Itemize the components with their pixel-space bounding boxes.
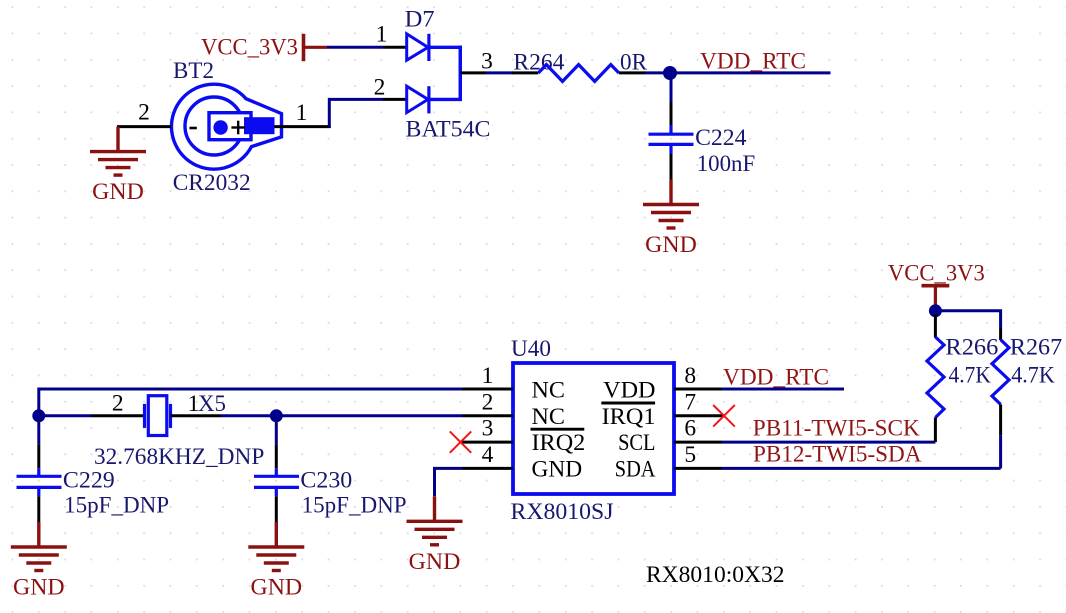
crystal IX5 32.768KHZ <box>94 391 264 470</box>
ground GND at U40 pin 4 <box>407 496 463 575</box>
ground GND at BT2 <box>90 127 146 206</box>
svg-text:3: 3 <box>481 49 493 75</box>
wire R264 to VDD_RTC net <box>645 71 831 74</box>
svg-text:R266: R266 <box>945 335 998 361</box>
op-amp U40 RX8010SJ box <box>511 336 675 525</box>
svg-text:BT2: BT2 <box>173 58 214 84</box>
svg-text:D7: D7 <box>405 6 435 32</box>
pin 3 of U40 (no connect X) <box>450 416 513 453</box>
pin 4 of U40 + wire to GND <box>435 442 514 496</box>
power port VCC_3V3 (right) <box>888 261 985 311</box>
ground GND at C230 <box>248 522 304 601</box>
pin 2 of crystal <box>91 391 144 417</box>
capacitor C230 <box>254 416 407 523</box>
pin 8 of U40 / net VDD_RTC <box>674 363 844 390</box>
svg-text:1: 1 <box>482 363 494 389</box>
svg-text:5: 5 <box>684 442 696 468</box>
svg-text:15pF_DNP: 15pF_DNP <box>302 493 407 519</box>
power port VCC_3V3 (left) <box>201 34 327 61</box>
svg-text:100nF: 100nF <box>697 151 756 177</box>
svg-text:4.7K: 4.7K <box>1011 362 1055 388</box>
svg-text:SDA: SDA <box>615 456 656 482</box>
pin 6 of U40 / net PB11-TWI5-SCK <box>674 415 935 442</box>
diode D7 (BAT54C dual schottky) <box>405 6 491 142</box>
svg-text:C230: C230 <box>300 468 352 494</box>
pin 7 of U40 (no connect X) <box>674 389 735 426</box>
svg-text:X5: X5 <box>198 391 226 417</box>
svg-text:RX8010SJ: RX8010SJ <box>511 499 614 525</box>
svg-text:4.7K: 4.7K <box>949 362 991 388</box>
pin 5 of U40 / net PB12-TWI5-SDA <box>674 442 1001 469</box>
svg-text:GND: GND <box>13 575 65 601</box>
svg-text:IRQ1: IRQ1 <box>602 404 656 430</box>
battery BT2 <box>171 58 281 196</box>
svg-text:RX8010:0X32: RX8010:0X32 <box>646 562 785 588</box>
capacitor C229 <box>17 416 170 523</box>
svg-text:R267: R267 <box>1010 335 1063 361</box>
svg-text:1: 1 <box>296 100 308 126</box>
svg-text:IRQ2: IRQ2 <box>532 430 586 456</box>
ground GND at C224 <box>643 180 699 259</box>
capacitor C224 <box>649 73 756 180</box>
svg-text:CR2032: CR2032 <box>173 170 251 196</box>
svg-text:VDD_RTC: VDD_RTC <box>700 48 806 74</box>
ground GND at C229 <box>11 522 67 601</box>
node junction at C229 <box>32 409 45 422</box>
svg-text:GND: GND <box>409 549 461 575</box>
pin 3 of D7 <box>460 49 493 75</box>
pin 1 of crystal / wire to U40 pin 2 <box>171 414 463 417</box>
wire BT2 to D7 pin 2 <box>329 99 383 126</box>
svg-text:GND: GND <box>251 575 303 601</box>
wire net XT1 (top row to U40 pin 1) <box>39 389 462 416</box>
svg-text:VCC_3V3: VCC_3V3 <box>201 34 298 60</box>
svg-text:2: 2 <box>482 389 494 415</box>
svg-text:SCL: SCL <box>618 430 655 456</box>
pin 2 of D7 <box>374 75 408 101</box>
svg-text:NC: NC <box>532 404 566 430</box>
svg-text:2: 2 <box>374 75 386 101</box>
pin 2 of BT2 + wire to GND <box>117 100 171 127</box>
wire D7 pin3 to R264 <box>486 71 513 74</box>
svg-text:NC: NC <box>532 378 566 404</box>
wire junction to crystal pin 2 <box>39 414 91 417</box>
pin 1 of D7 <box>376 22 408 48</box>
pin 1 of U40 <box>462 363 513 389</box>
pin 1 of BT2 + wire to D7 pin 2 <box>275 100 331 127</box>
svg-text:3: 3 <box>482 416 494 442</box>
svg-text:PB11-TWI5-SCK: PB11-TWI5-SCK <box>753 415 920 441</box>
svg-text:PB12-TWI5-SDA: PB12-TWI5-SDA <box>753 442 922 468</box>
svg-text:GND: GND <box>92 179 144 205</box>
resistor R267 <box>992 328 1062 468</box>
svg-text:6: 6 <box>684 416 696 442</box>
svg-text:C224: C224 <box>695 125 747 151</box>
resistor R266 <box>927 314 999 442</box>
svg-text:U40: U40 <box>511 336 551 362</box>
svg-text:15pF_DNP: 15pF_DNP <box>64 493 169 519</box>
svg-text:4: 4 <box>482 442 494 468</box>
svg-text:2: 2 <box>112 391 124 417</box>
svg-text:32.768KHZ_DNP: 32.768KHZ_DNP <box>94 444 264 470</box>
node junction at C224 <box>663 66 677 80</box>
resistor R264 <box>512 49 647 81</box>
pin 2 of U40 <box>462 389 513 416</box>
wire VCC_3V3 to D7 pin 1 <box>327 46 383 49</box>
node junction below VCC_3V3 <box>929 304 942 317</box>
svg-text:7: 7 <box>684 389 696 415</box>
svg-text:VCC_3V3: VCC_3V3 <box>888 261 985 287</box>
svg-text:1: 1 <box>376 22 388 48</box>
svg-text:8: 8 <box>684 363 696 389</box>
node junction at C230 <box>270 409 283 422</box>
wire VCC to R267 top <box>935 311 1000 328</box>
svg-text:GND: GND <box>645 232 697 258</box>
svg-text:VDD_RTC: VDD_RTC <box>723 364 829 390</box>
svg-text:2: 2 <box>138 100 150 126</box>
svg-text:BAT54C: BAT54C <box>406 117 491 143</box>
svg-text:C229: C229 <box>63 468 115 494</box>
svg-text:VDD: VDD <box>603 378 655 404</box>
svg-text:GND: GND <box>532 456 583 482</box>
